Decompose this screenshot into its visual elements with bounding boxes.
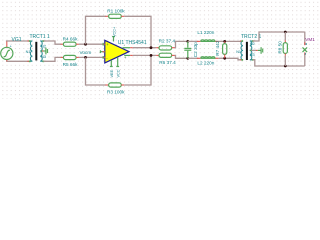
wire bottom rail C2 to L2 [188, 57, 199, 59]
power pin top VCC+ [113, 37, 115, 42]
wire TRCT1 secondary bottom to R5 [44, 57, 62, 61]
center tap pin [41, 50, 46, 52]
transformer TRCT2 [240, 40, 255, 61]
svg-text:R7 442: R7 442 [215, 40, 220, 56]
svg-text:VCC+: VCC+ [112, 26, 116, 37]
label C2 33p [193, 42, 198, 58]
pin label N2 [41, 44, 46, 48]
wire R3 to node OUT+ [124, 55, 151, 85]
power pin bottom VCC [117, 57, 119, 66]
label R7 442 [215, 40, 220, 56]
svg-text:R5 66k: R5 66k [63, 62, 79, 67]
svg-text:R3 100k: R3 100k [107, 90, 125, 95]
svg-text:VG1: VG1 [12, 37, 22, 43]
label L2 220n [197, 60, 214, 65]
svg-text:U1 THS4541: U1 THS4541 [118, 40, 147, 46]
core [246, 42, 248, 60]
transformer TRCT1 [27, 40, 45, 62]
svg-text:N2: N2 [250, 42, 255, 46]
label L1 220n [197, 30, 214, 35]
primary winding N1 [241, 41, 243, 60]
label U1 THS4541 [118, 40, 147, 46]
inductor L2 [197, 57, 219, 59]
wire TRCT2 secondary top to output rail [253, 32, 305, 41]
capacitor C2 [184, 41, 191, 58]
junction node IN+ [84, 43, 87, 46]
secondary winding N2/N3 [250, 41, 253, 60]
svg-text:VEE: VEE [110, 69, 114, 77]
wire riser to R3 [86, 57, 106, 85]
wire R6 to bottom rail [175, 55, 189, 58]
svg-text:R4 66k: R4 66k [63, 37, 79, 42]
label VM1 [305, 37, 315, 42]
svg-text:N3: N3 [250, 53, 255, 57]
wire OUT+ to R6 [133, 54, 156, 56]
svg-text:L1 220n: L1 220n [197, 30, 214, 35]
resistor R4 [61, 42, 79, 46]
svg-text:R8 50: R8 50 [277, 41, 282, 54]
pin label N3 [250, 53, 255, 57]
output OUT- pin [123, 47, 131, 49]
wire OUT- to R2 [133, 47, 156, 49]
label TRCT1 1 [30, 34, 51, 40]
Vocm pin [100, 51, 104, 53]
junction node OUT+ [150, 54, 153, 57]
wire top rail C2 to L1 [188, 40, 199, 42]
wire R4 to node IN+ [79, 43, 105, 45]
voltmeter VM1 [303, 42, 308, 55]
svg-text:N1: N1 [26, 50, 31, 54]
wire R1 to node OUT- [124, 16, 151, 47]
output OUT+ pin [124, 54, 130, 56]
svg-text:R1 100k: R1 100k [107, 9, 125, 14]
label R4 66k [63, 37, 79, 42]
wire TRCT2 tap to ground [251, 49, 256, 51]
center tap pin [250, 49, 252, 51]
junction R8 bottom [284, 65, 287, 68]
svg-text:R6 37.4: R6 37.4 [159, 60, 176, 65]
wire riser to R1 [86, 16, 106, 44]
svg-text:C2 33p: C2 33p [193, 42, 198, 58]
wire TRCT1 secondary top to R4 [44, 41, 62, 44]
label Vocm [80, 50, 92, 55]
junction R8 top [284, 31, 287, 34]
wire VG1 bottom to TRCT1 primary bottom [7, 60, 29, 63]
pin label N1 [236, 50, 241, 54]
pin label N1 [26, 50, 31, 54]
pin label N2 [250, 42, 255, 46]
resistor R1 [105, 14, 124, 18]
resistor R6 [156, 53, 174, 57]
label VG1 [12, 37, 22, 43]
label R6 37.4 [159, 60, 176, 65]
svg-text:VCC: VCC [116, 69, 120, 77]
junction C2 bottom [186, 57, 189, 60]
wire R2 to top rail [175, 41, 188, 47]
secondary winding N2/N3 [40, 41, 43, 61]
wire R5 to node IN- [79, 56, 105, 58]
label TRCT2 1 [241, 34, 262, 40]
svg-text:VM1: VM1 [305, 37, 315, 42]
resistor R2 [156, 46, 174, 50]
body [105, 40, 129, 63]
wire TRCT2 secondary bottom to bottom rail [253, 60, 305, 66]
voltage source VG1 [1, 42, 13, 62]
junction R7 bottom [223, 57, 226, 60]
wire VG1 top to TRCT1 primary top [6, 40, 29, 42]
svg-text:Vocm: Vocm [80, 50, 92, 55]
junction node IN- [84, 56, 87, 59]
core [35, 42, 37, 61]
svg-text:TRCT1 1: TRCT1 1 [30, 34, 51, 40]
background grid [0, 0, 320, 99]
pin label N3 [41, 55, 46, 59]
ground at TRCT2 center tap [256, 47, 263, 54]
wire L2 to TRCT2 [218, 58, 242, 60]
label R5 66k [63, 62, 79, 67]
label R1 100k [107, 9, 125, 14]
label R3 100k [107, 90, 125, 95]
svg-text:N1: N1 [236, 50, 241, 54]
wire VM1 bottom [304, 54, 306, 66]
svg-text:N3: N3 [41, 55, 46, 59]
wire to VM1 [304, 32, 306, 45]
wire L1 to R7 top [218, 40, 242, 42]
resistor R7 [223, 42, 227, 59]
ground at TRCT1 center tap [46, 48, 48, 55]
junction node OUT- [150, 46, 153, 49]
power pin bottom VEE [110, 60, 112, 66]
primary winding N1 [30, 41, 33, 61]
svg-text:L2 220n: L2 220n [197, 60, 214, 65]
inductor L1 [197, 40, 219, 42]
svg-text:R2 37.4: R2 37.4 [159, 38, 176, 43]
junction C2 top [186, 40, 189, 43]
resistor R8 [283, 32, 287, 66]
resistor R3 [105, 83, 124, 87]
label R2 37.4 [159, 38, 176, 43]
label R8 50 [277, 41, 282, 54]
resistor R5 [61, 55, 79, 59]
input IN+ pin [103, 43, 106, 45]
junction R7 top [223, 40, 226, 43]
op-amp U1 THS4541 [100, 26, 132, 78]
input IN- pin [103, 56, 106, 58]
